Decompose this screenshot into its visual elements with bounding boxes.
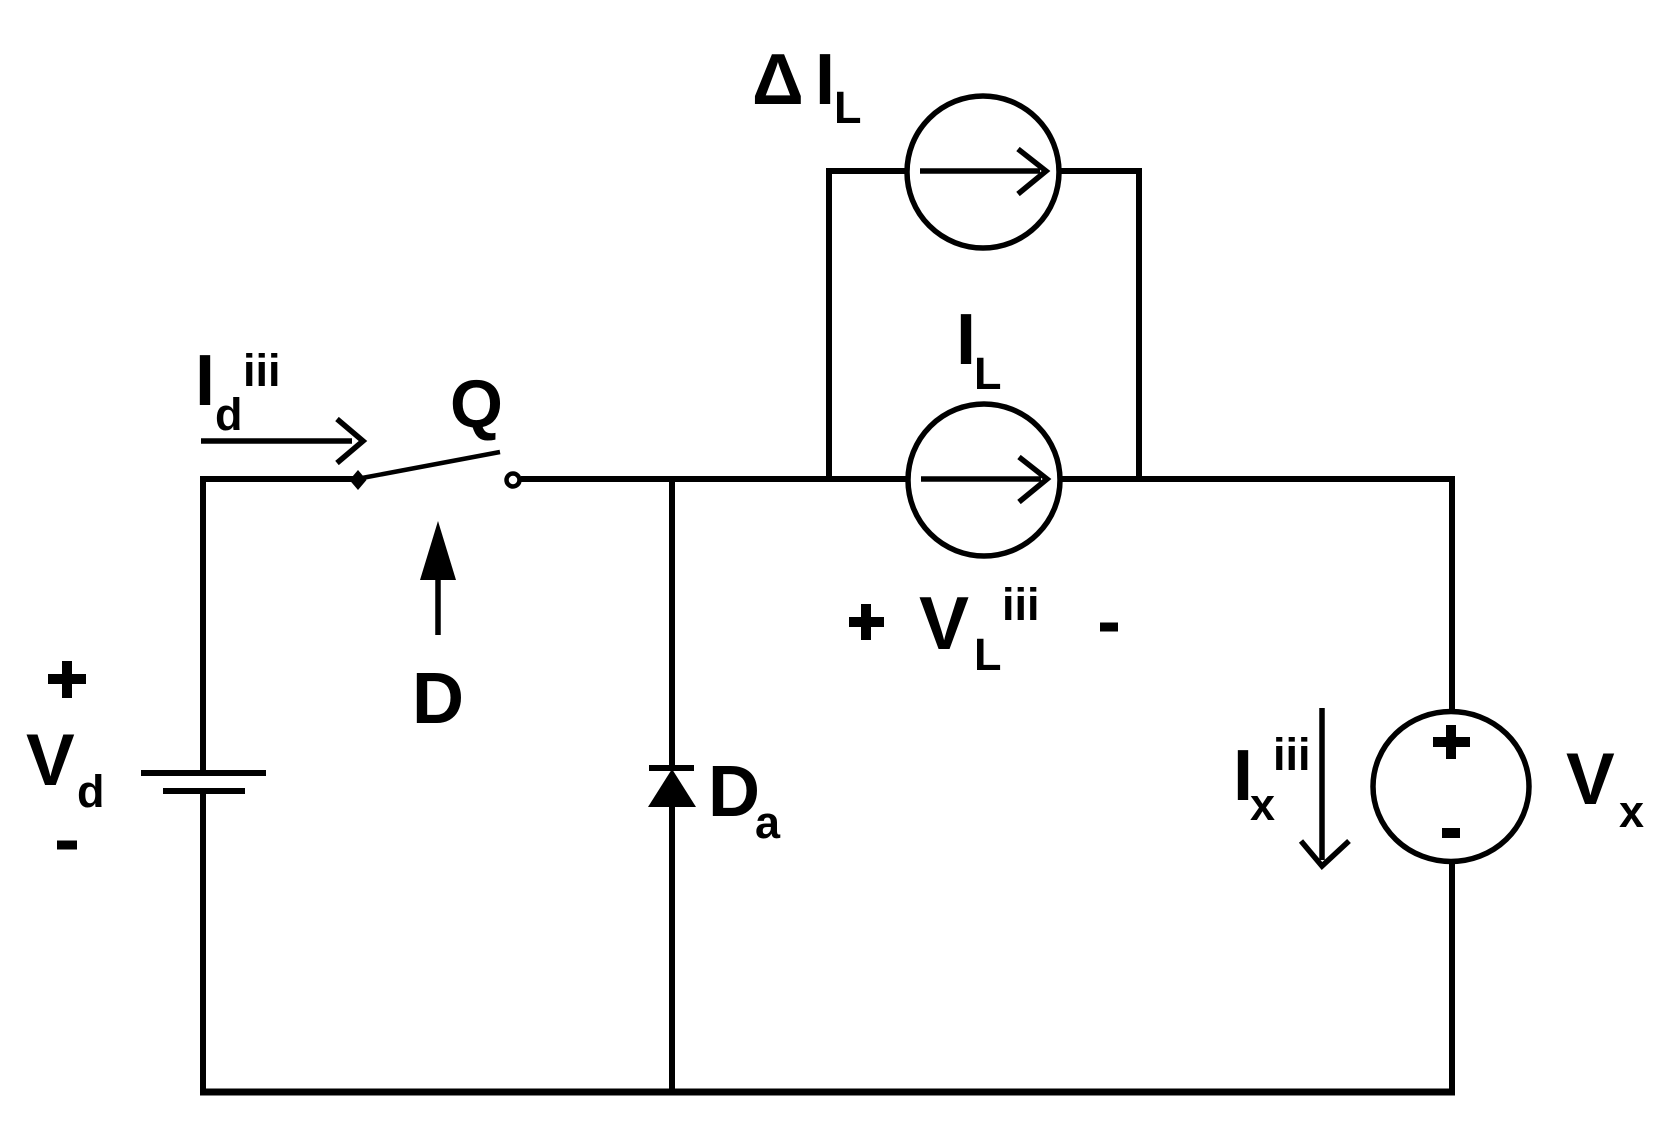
svg-text:D: D bbox=[412, 659, 464, 739]
svg-text:I: I bbox=[815, 40, 835, 120]
svg-text:iii: iii bbox=[1273, 729, 1311, 780]
switch Q right contact bbox=[507, 474, 520, 487]
voltage source Vx circle bbox=[1373, 712, 1529, 862]
svg-text:V: V bbox=[26, 720, 75, 801]
label plus (VL) bbox=[849, 604, 884, 640]
svg-text:d: d bbox=[77, 766, 105, 817]
svg-text:L: L bbox=[834, 82, 862, 133]
wire top rail: battery corner to switch left contact bbox=[203, 476, 354, 482]
current source delta-IL circle bbox=[907, 96, 1059, 248]
svg-text:x: x bbox=[1619, 786, 1644, 837]
svg-text:Δ: Δ bbox=[752, 40, 804, 120]
wire delta-IL loop left vertical bbox=[826, 168, 832, 479]
wire diode branch upper bbox=[669, 479, 675, 768]
battery Vd bottom plate bbox=[163, 788, 245, 794]
switch Q left contact junction bbox=[350, 470, 367, 490]
Vx minus bbox=[1442, 828, 1460, 838]
wire left branch upper bbox=[200, 476, 206, 772]
diode Da triangle bbox=[648, 769, 696, 807]
svg-text:Q: Q bbox=[450, 366, 503, 442]
IL arrow bbox=[921, 457, 1047, 502]
svg-text:iii: iii bbox=[1002, 579, 1040, 630]
battery Vd top plate bbox=[141, 770, 266, 776]
svg-text:L: L bbox=[974, 629, 1002, 680]
wire delta-IL loop right vertical bbox=[1136, 168, 1142, 479]
svg-text:L: L bbox=[974, 348, 1002, 399]
current source IL circle bbox=[908, 404, 1060, 556]
switch Q blade bbox=[362, 452, 500, 478]
delta-IL arrow bbox=[920, 149, 1046, 194]
svg-text:x: x bbox=[1250, 779, 1275, 830]
Vx plus bbox=[1433, 725, 1470, 759]
wire delta-IL loop top-left horizontal bbox=[826, 168, 906, 174]
wire delta-IL loop top-right horizontal bbox=[1059, 168, 1142, 174]
duty arrow D bbox=[435, 578, 441, 635]
bottom rail bbox=[200, 1089, 1455, 1096]
wire left branch lower bbox=[200, 791, 206, 1092]
label minus (VL) bbox=[1100, 623, 1118, 632]
wire top rail: switch to IL source bbox=[521, 476, 906, 482]
current arrow Id bbox=[201, 419, 363, 463]
svg-text:a: a bbox=[755, 797, 781, 848]
label minus (Vd) bbox=[57, 841, 77, 850]
svg-text:I: I bbox=[195, 341, 215, 421]
wire diode branch lower bbox=[669, 805, 675, 1092]
label plus (Vd) bbox=[48, 661, 86, 698]
svg-text:d: d bbox=[215, 389, 243, 440]
current arrow Ix bbox=[1301, 708, 1349, 866]
wire right branch upper bbox=[1449, 476, 1455, 712]
wire top rail: IL source to right corner bbox=[1062, 476, 1455, 482]
svg-text:I: I bbox=[956, 300, 976, 380]
wire right branch lower bbox=[1449, 863, 1455, 1092]
svg-text:iii: iii bbox=[243, 345, 281, 396]
svg-text:D: D bbox=[708, 752, 760, 832]
svg-text:V: V bbox=[919, 581, 969, 665]
svg-text:V: V bbox=[1566, 739, 1615, 820]
diode Da cathode bar bbox=[649, 765, 694, 771]
